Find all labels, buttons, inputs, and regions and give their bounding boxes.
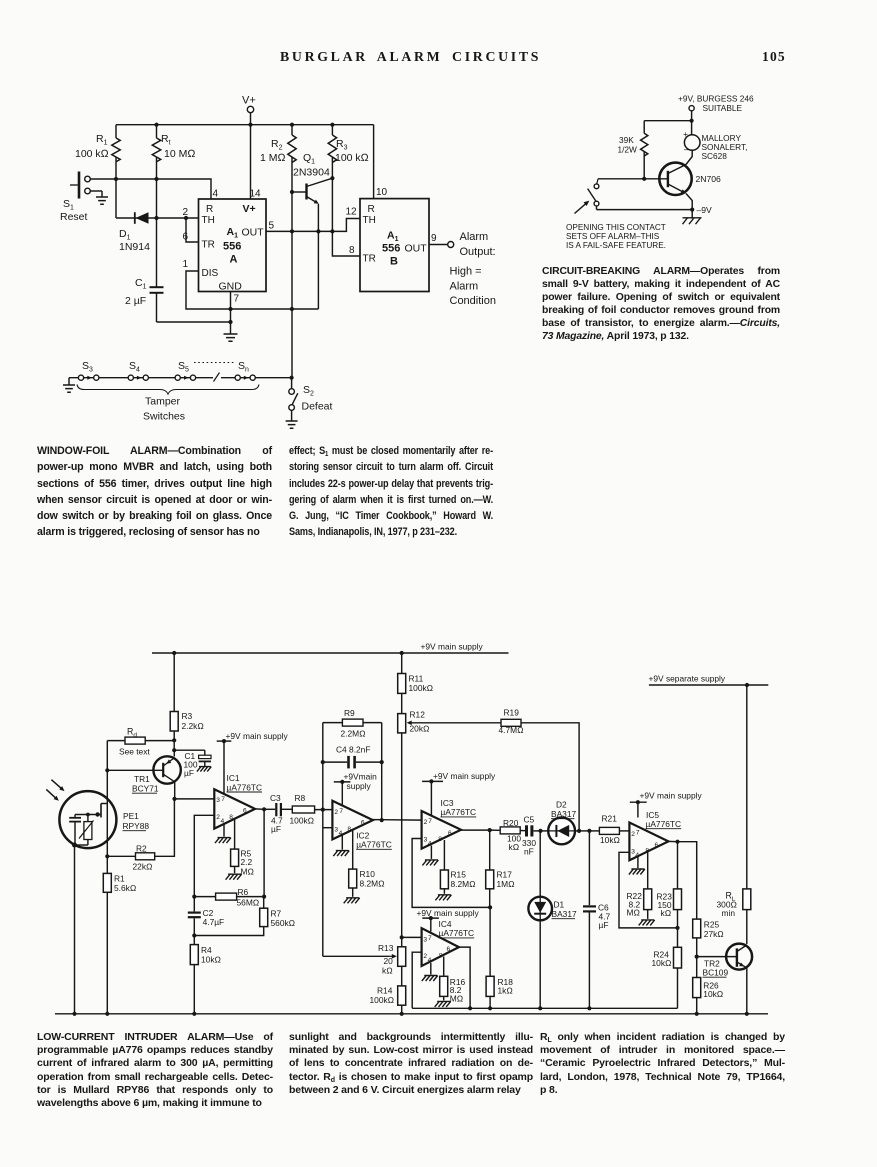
svg-text:TH: TH: [363, 215, 376, 226]
resistor R11 100k: [398, 653, 434, 693]
ground IC1 pin4: [215, 824, 231, 843]
resistor Rd (see text): [107, 727, 174, 757]
svg-text:10kΩ: 10kΩ: [201, 955, 222, 965]
svg-text:BC109: BC109: [703, 968, 729, 978]
resistor R3 100k: [328, 125, 369, 256]
svg-text:µA776TC: µA776TC: [227, 782, 263, 792]
wire IC4 pin2 loop: [412, 952, 421, 1008]
ground IC2 pin4: [333, 835, 349, 856]
svg-text:R11: R11: [409, 674, 424, 684]
svg-text:R8: R8: [295, 793, 306, 803]
wire C1 to gnd: [157, 321, 231, 323]
svg-text:7: 7: [339, 808, 343, 815]
svg-text:µF: µF: [599, 920, 609, 930]
wire RL to collector: [746, 910, 748, 945]
label alarm output: [450, 231, 496, 307]
capacitor C4 8.2nF: [323, 745, 382, 769]
switch S1 Reset: [60, 172, 90, 224]
capacitor C2 4.7uF: [188, 897, 224, 936]
svg-text:IS A FAIL-SAFE FEATURE.: IS A FAIL-SAFE FEATURE.: [566, 241, 666, 250]
svg-text:µF: µF: [271, 824, 281, 834]
label fail-safe note: [566, 223, 666, 250]
svg-text:MΩ: MΩ: [450, 994, 464, 1004]
svg-text:C4 8.2nF: C4 8.2nF: [336, 745, 370, 755]
resistor R13 20k (tap): [378, 937, 406, 975]
resistor R18 1k: [486, 907, 513, 1008]
svg-text:Condition: Condition: [450, 295, 496, 307]
svg-text:R2: R2: [271, 138, 283, 152]
resistor R26 10k: [693, 957, 724, 1014]
caption low-current col3: [540, 1031, 785, 1097]
svg-text:–9V: –9V: [697, 205, 713, 215]
wire source down: [106, 842, 108, 873]
resistor R17 1M: [486, 830, 515, 907]
svg-text:µA776TC: µA776TC: [441, 807, 477, 817]
wire Q1 emitter down: [317, 204, 319, 231]
wire IC5 out: [668, 840, 677, 842]
node IC2 +9V supply: [334, 772, 377, 806]
svg-text:10: 10: [376, 187, 388, 198]
svg-text:R6: R6: [238, 887, 249, 897]
svg-text:1MΩ: 1MΩ: [497, 879, 516, 889]
wire: [521, 723, 579, 831]
svg-text:See text: See text: [119, 747, 150, 757]
diode D2 BA317: [548, 800, 576, 845]
svg-text:DIS: DIS: [202, 268, 219, 279]
svg-text:RPY88: RPY88: [123, 821, 150, 831]
wire: [194, 927, 263, 936]
resistor R4 10k: [190, 936, 221, 1014]
resistor R7 560k: [194, 897, 295, 936]
svg-text:C1: C1: [135, 277, 147, 291]
svg-text:SC628: SC628: [702, 151, 728, 161]
op-amp IC3 uA776TC: [422, 798, 477, 849]
label tamper switches: [143, 396, 185, 423]
svg-text:TH: TH: [202, 215, 215, 226]
svg-text:R13: R13: [378, 943, 394, 953]
svg-text:+9V main supply: +9V main supply: [417, 908, 480, 918]
node IC5 +9V supply: [630, 791, 703, 818]
svg-text:High =: High =: [450, 266, 482, 278]
resistor R12 20k (preset): [398, 693, 430, 733]
wire IC1 fb: [263, 809, 265, 896]
svg-text:100 kΩ: 100 kΩ: [75, 148, 109, 160]
svg-text:8: 8: [229, 814, 233, 821]
svg-text:S3: S3: [82, 360, 93, 374]
svg-text:R19: R19: [504, 708, 520, 718]
resistor R1 56k: [103, 873, 137, 1013]
svg-text:7: 7: [428, 818, 432, 825]
svg-text:Rt: Rt: [161, 133, 171, 147]
resistor R21 10k: [589, 814, 629, 846]
svg-text:supply: supply: [347, 781, 372, 791]
wire out to R25: [678, 842, 697, 919]
svg-text:4.7MΩ: 4.7MΩ: [499, 725, 525, 735]
caption window-foil col2: [289, 443, 493, 541]
op-amp IC5 uA776TC: [629, 810, 681, 861]
svg-text:A1: A1: [387, 230, 399, 244]
wire DIS bus: [186, 271, 318, 309]
svg-text:A1: A1: [227, 226, 239, 240]
svg-text:20: 20: [384, 956, 394, 966]
svg-text:7: 7: [636, 830, 640, 837]
switch S3 tamper: [78, 360, 99, 380]
ground main: [224, 334, 238, 341]
resistor R23 150k: [657, 842, 682, 928]
wire R9 right: [381, 723, 383, 821]
svg-text:12: 12: [346, 207, 358, 218]
svg-text:µA776TC: µA776TC: [439, 928, 475, 938]
svg-text:V+: V+: [242, 95, 256, 107]
svg-text:R25: R25: [704, 920, 720, 930]
wire pin7 gnd: [230, 292, 232, 335]
svg-text:1 MΩ: 1 MΩ: [260, 152, 286, 164]
op-amp IC2 uA776TC: [332, 801, 391, 850]
svg-text:R: R: [206, 204, 213, 215]
svg-text:1/2W: 1/2W: [618, 145, 638, 155]
wire tamper line: [69, 377, 292, 379]
ground below S2: [286, 421, 298, 428]
capacitor C1 2uF: [125, 277, 164, 322]
page header title: [280, 49, 541, 65]
resistor R24 10k: [652, 928, 682, 1008]
resistor R3 2.2k: [170, 653, 204, 740]
svg-text:OUT: OUT: [405, 243, 428, 255]
node +9V battery terminal: [678, 94, 754, 121]
svg-text:100 kΩ: 100 kΩ: [335, 152, 369, 164]
svg-text:8.2MΩ: 8.2MΩ: [360, 879, 386, 889]
detector PE1 RPY88: [46, 780, 149, 848]
caption window-foil col1: [37, 443, 272, 541]
svg-text:22kΩ: 22kΩ: [133, 862, 154, 872]
svg-text:TR1: TR1: [134, 774, 150, 784]
switch S2 Defeat: [289, 376, 333, 421]
wire IC2 pin3: [323, 827, 333, 829]
wire IC5 pin3 loop: [619, 852, 678, 928]
switch S4 tamper: [128, 360, 148, 380]
svg-text:4: 4: [213, 189, 219, 200]
svg-text:8.2MΩ: 8.2MΩ: [451, 879, 477, 889]
svg-text:µA776TC: µA776TC: [646, 819, 682, 829]
svg-text:R4: R4: [201, 945, 212, 955]
resistor R19 4.7M: [407, 708, 579, 831]
wire PE1 case to gnd: [74, 845, 76, 1014]
wire ground rail: [55, 1013, 768, 1015]
wire to R13 tap: [323, 955, 390, 957]
svg-text:5.6kΩ: 5.6kΩ: [114, 883, 137, 893]
ground chassis: [683, 210, 702, 225]
svg-text:20kΩ: 20kΩ: [410, 724, 431, 734]
svg-text:100kΩ: 100kΩ: [370, 995, 395, 1005]
wire: [173, 740, 175, 750]
svg-text:SUITABLE: SUITABLE: [703, 103, 743, 113]
svg-text:8: 8: [347, 826, 351, 833]
svg-text:MΩ: MΩ: [241, 867, 255, 877]
wire IC3 pin3 loop: [412, 839, 490, 908]
svg-text:R: R: [368, 204, 375, 215]
svg-text:2: 2: [424, 819, 428, 826]
wire: [317, 231, 319, 309]
svg-text:2.2: 2.2: [241, 857, 253, 867]
resistor R5 2.2M: [226, 819, 255, 880]
svg-text:R20: R20: [503, 818, 519, 828]
svg-text:2.2MΩ: 2.2MΩ: [341, 729, 367, 739]
svg-text:+: +: [683, 129, 688, 139]
wire: [539, 920, 541, 1008]
wire +9V separate supply rail: [649, 674, 769, 686]
resistor RL 300ohm min (relay): [717, 685, 751, 918]
svg-text:min: min: [722, 908, 736, 918]
svg-text:+9V main supply: +9V main supply: [433, 771, 496, 781]
resistor R22 8.2M: [627, 852, 655, 926]
svg-text:8: 8: [439, 952, 443, 959]
svg-text:Output:: Output:: [460, 246, 496, 258]
wire base: [598, 178, 668, 180]
brace tamper switches: [77, 385, 259, 395]
svg-text:2.2kΩ: 2.2kΩ: [182, 721, 205, 731]
op-amp U2 556 B (timer block): [346, 187, 438, 292]
svg-text:R3: R3: [336, 138, 348, 152]
svg-text:8: 8: [349, 245, 355, 256]
svg-text:kΩ: kΩ: [661, 908, 672, 918]
resistor Rt 10M: [152, 125, 195, 287]
switch S5 tamper: [175, 360, 196, 380]
wire IC1 out: [255, 808, 264, 810]
svg-text:560kΩ: 560kΩ: [271, 918, 296, 928]
svg-text:BA317: BA317: [551, 809, 576, 819]
svg-text:10 MΩ: 10 MΩ: [164, 148, 195, 160]
wire emitter up: [173, 750, 175, 756]
svg-text:nF: nF: [524, 846, 534, 856]
svg-text:6: 6: [447, 946, 451, 953]
wire chain down: [401, 733, 403, 938]
svg-text:R2: R2: [136, 844, 147, 854]
svg-text:R1: R1: [114, 874, 125, 884]
wire: [155, 799, 175, 856]
svg-text:R10: R10: [360, 869, 376, 879]
resistor R10 8.2M: [344, 830, 385, 903]
svg-text:5: 5: [269, 221, 275, 232]
svg-text:6: 6: [655, 842, 659, 849]
svg-text:R15: R15: [451, 870, 467, 880]
ground IC4 pin4: [422, 963, 438, 981]
wire TH to TR pin6: [186, 218, 199, 242]
wire: [106, 799, 108, 842]
op-amp IC1 uA776TC: [214, 773, 262, 829]
svg-text:+9V main supply: +9V main supply: [421, 642, 484, 652]
switch foil contact: [588, 179, 599, 210]
ground IC5 pin4: [629, 857, 645, 875]
transistor TR1 BCY71: [107, 756, 181, 793]
svg-text:S5: S5: [178, 360, 189, 374]
wire IC4 pin3: [402, 936, 422, 938]
wire feedback bus: [412, 1007, 677, 1009]
wire top: [644, 120, 691, 122]
wire: [539, 831, 541, 897]
svg-text:Tamper: Tamper: [145, 396, 181, 408]
svg-text:3: 3: [423, 937, 427, 944]
capacitor C1 100uF: [174, 750, 211, 778]
node IC4 +9V supply: [417, 908, 480, 931]
svg-text:TR: TR: [363, 254, 376, 265]
svg-text:TR: TR: [202, 240, 215, 251]
svg-text:10kΩ: 10kΩ: [600, 835, 621, 845]
svg-text:10kΩ: 10kΩ: [652, 958, 673, 968]
capacitor C3 4.7uF: [264, 793, 292, 834]
svg-text:µF: µF: [184, 768, 194, 778]
svg-text:1: 1: [182, 259, 188, 270]
wire IC1 pin2: [194, 815, 214, 896]
svg-text:S1: S1: [63, 198, 74, 212]
wire: [332, 157, 360, 256]
svg-text:56MΩ: 56MΩ: [237, 898, 260, 908]
wire: [686, 194, 692, 210]
svg-text:R17: R17: [497, 870, 513, 880]
svg-text:2: 2: [182, 207, 188, 218]
svg-text:–: –: [684, 144, 689, 154]
wire R9 left: [322, 723, 324, 810]
svg-text:6: 6: [448, 830, 452, 837]
node alarm output pin9: [429, 242, 454, 248]
wire emitter bus: [597, 209, 693, 211]
transistor Q2 2N706: [659, 163, 721, 210]
svg-text:2N3904: 2N3904: [293, 167, 330, 179]
svg-text:Switches: Switches: [143, 411, 185, 423]
svg-text:R3: R3: [182, 711, 193, 721]
page number: [762, 49, 786, 65]
svg-text:+9V main supply: +9V main supply: [640, 791, 703, 801]
svg-text:R7: R7: [271, 909, 282, 919]
caption circuit-breaking: [542, 265, 780, 344]
svg-text:Sn: Sn: [238, 360, 249, 374]
resistor R1 100k: [75, 125, 120, 218]
svg-text:10kΩ: 10kΩ: [703, 989, 724, 999]
resistor R15 8.2M: [435, 840, 476, 900]
transistor Q1 2N3904: [292, 152, 332, 204]
op-amp IC4 uA776TC: [422, 919, 475, 966]
resistor R9 2.2M: [323, 708, 382, 739]
diode D1 BA317: [528, 831, 577, 1008]
capacitor C5 330nF: [522, 815, 541, 857]
svg-text:1N914: 1N914: [119, 241, 150, 253]
resistor R2 1M: [260, 125, 296, 378]
svg-text:4.7µF: 4.7µF: [203, 917, 225, 927]
caption low-current col2: [289, 1031, 533, 1097]
wire sonalert to collector: [686, 150, 692, 164]
wire collector down: [174, 782, 176, 799]
wire emitter to gnd: [746, 968, 748, 1014]
svg-text:SETS OFF ALARM–THIS: SETS OFF ALARM–THIS: [566, 232, 660, 241]
svg-text:D1: D1: [554, 900, 565, 910]
transistor TR2 BC109: [697, 944, 752, 978]
svg-text:R1: R1: [96, 133, 108, 147]
svg-text:Q1: Q1: [303, 152, 315, 166]
wire S1 to pin4: [90, 179, 211, 199]
wire pin3 down: [322, 810, 324, 957]
wire V+ rail: [116, 124, 374, 126]
wire IC3 out: [461, 829, 490, 831]
svg-text:7: 7: [221, 796, 225, 803]
wire Rd to base node: [106, 741, 108, 771]
svg-text:GND: GND: [219, 281, 243, 293]
svg-text:Alarm: Alarm: [450, 281, 479, 293]
svg-text:6: 6: [361, 819, 365, 826]
node IC3 +9V supply: [422, 771, 496, 816]
svg-text:39K: 39K: [619, 135, 634, 145]
svg-text:MΩ: MΩ: [627, 908, 641, 918]
caption low-current col1: [37, 1031, 273, 1110]
svg-text:7: 7: [234, 294, 240, 305]
resistor R16 8.2M: [435, 957, 466, 1007]
resistor R25 27k: [693, 919, 725, 957]
svg-text:C5: C5: [524, 815, 535, 825]
wire IC4 out: [459, 947, 470, 1008]
svg-text:2: 2: [631, 831, 635, 838]
svg-text:B: B: [390, 256, 398, 268]
svg-text:BCY71: BCY71: [132, 784, 159, 794]
resistor 39K 1/2W: [618, 121, 648, 179]
svg-text:Defeat: Defeat: [302, 401, 333, 413]
svg-text:C3: C3: [270, 793, 281, 803]
svg-text:OPENING THIS CONTACT: OPENING THIS CONTACT: [566, 223, 666, 232]
svg-text:V+: V+: [243, 203, 256, 215]
svg-text:A: A: [230, 254, 238, 266]
resistor R14 100k: [370, 966, 406, 1014]
svg-text:D1: D1: [119, 228, 131, 242]
resistor R20 100k: [490, 818, 525, 852]
wire to IC1 pin3: [175, 798, 215, 800]
op-amp U1 556 A (timer block): [182, 189, 274, 305]
ground tamper left: [63, 378, 75, 393]
wire pin14 V+: [250, 125, 252, 199]
svg-text:9: 9: [431, 233, 437, 244]
svg-text:3: 3: [216, 797, 220, 804]
svg-text:2 µF: 2 µF: [125, 295, 146, 307]
svg-text:Reset: Reset: [60, 211, 88, 223]
svg-text:100kΩ: 100kΩ: [409, 683, 434, 693]
ground below S1: [90, 191, 108, 204]
svg-text:+9V main supply: +9V main supply: [226, 731, 289, 741]
svg-text:D2: D2: [556, 800, 567, 810]
svg-text:8: 8: [438, 836, 442, 843]
svg-text:PE1: PE1: [123, 811, 139, 821]
svg-text:6: 6: [182, 232, 188, 243]
svg-text:R12: R12: [410, 710, 426, 720]
svg-text:556: 556: [382, 243, 400, 255]
svg-text:µA776TC: µA776TC: [356, 840, 392, 850]
svg-text:kΩ: kΩ: [382, 966, 393, 976]
svg-text:7: 7: [428, 935, 432, 942]
capacitor C6 4.7uF: [583, 831, 610, 1008]
svg-text:R21: R21: [602, 814, 618, 824]
svg-text:OUT: OUT: [242, 227, 265, 239]
svg-text:+9V separate supply: +9V separate supply: [649, 674, 726, 684]
resistor R6 56M: [194, 887, 264, 908]
svg-text:BA317: BA317: [552, 909, 577, 919]
svg-text:1kΩ: 1kΩ: [498, 985, 514, 995]
node IC1 +9V supply: [217, 731, 289, 794]
svg-text:556: 556: [223, 241, 241, 253]
svg-text:R9: R9: [344, 708, 355, 718]
svg-text:S2: S2: [303, 384, 314, 398]
svg-text:100kΩ: 100kΩ: [290, 816, 315, 826]
svg-text:2: 2: [334, 809, 338, 816]
ground IC3 pin4: [422, 846, 438, 866]
svg-text:27kΩ: 27kΩ: [704, 929, 725, 939]
wire +9V main supply rail: [152, 642, 509, 654]
svg-text:kΩ: kΩ: [509, 842, 520, 852]
diode D1 1N914: [116, 212, 199, 253]
